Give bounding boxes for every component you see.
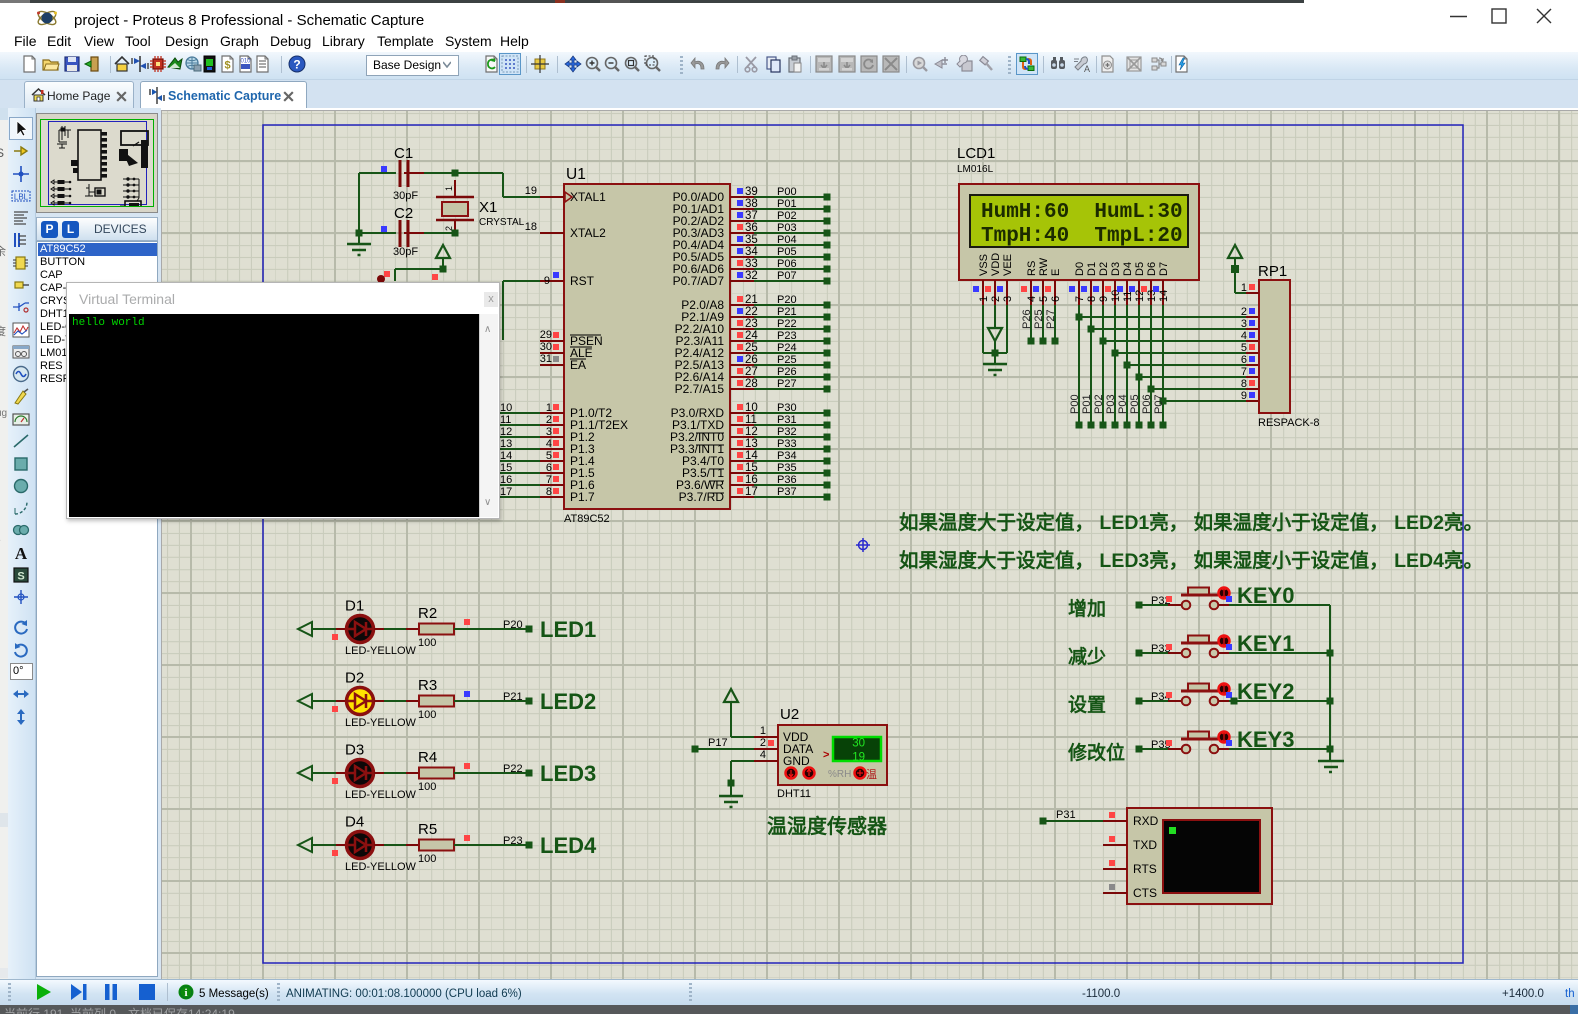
resistor pack RP1 body [1259,280,1290,413]
LCD LCD1 LM016L body [959,184,1199,280]
svg-text:10: 10 [745,402,758,414]
VT pin RTS [1103,868,1127,870]
power arrow VDD down [994,305,996,328]
wire bus D1 to RP1 [1091,328,1246,330]
svg-text:P02: P02 [777,210,797,222]
svg-text:P27: P27 [777,378,797,390]
wire arrow to D2 [312,700,336,702]
wire lcd P25 [1042,305,1044,341]
DHT display [833,737,881,761]
svg-text:P04: P04 [777,234,797,246]
svg-text:1: 1 [1241,282,1247,294]
wire lcd P26 [1030,305,1032,341]
U1 pin P1.0/T2 [499,412,540,414]
svg-text:5: 5 [1241,342,1247,354]
toolbar [0,52,1578,80]
svg-text:P01: P01 [1081,394,1093,414]
U2 pin 4 GND [754,760,778,762]
U1 pin P1.4 [499,460,540,462]
LCD screen [970,195,1188,247]
wire KEY1 right [1229,652,1330,654]
svg-text:P21: P21 [777,306,797,318]
U1 pin EA [540,364,564,366]
svg-text:RTS: RTS [1133,862,1157,876]
svg-text:4: 4 [760,749,766,761]
svg-text:EA: EA [570,358,586,372]
svg-text:16: 16 [500,474,512,486]
svg-text:P22: P22 [777,318,797,330]
LED D4 [347,832,374,859]
svg-text:P20: P20 [777,294,797,306]
svg-text:RW: RW [1038,257,1050,276]
svg-text:设置: 设置 [1068,694,1106,716]
svg-text:7: 7 [546,474,552,486]
DHT buttons [786,768,797,779]
svg-text:P20: P20 [503,619,523,631]
crystal X1 [454,180,456,197]
wire bus D6 to RP1 [1151,388,1246,390]
svg-text:P26: P26 [1021,309,1033,329]
svg-text:27: 27 [745,366,758,378]
svg-text:1: 1 [546,402,552,414]
wire KEY2 right [1229,700,1330,702]
tab bar [0,80,1578,108]
wire lcd D7 column [1162,305,1164,425]
wire VSS down [982,305,984,353]
svg-text:P0.7/AD7: P0.7/AD7 [673,274,725,288]
svg-text:8: 8 [546,486,552,498]
svg-text:2: 2 [760,737,766,749]
U2 pin 2 DATA [754,748,778,750]
svg-text:P07: P07 [1153,394,1165,414]
svg-text:R3: R3 [418,677,437,694]
chip U1 AT89C52 body [564,184,730,509]
wire R4 to terminal [454,772,526,774]
svg-text:P27: P27 [1045,309,1057,329]
svg-text:P37: P37 [777,486,797,498]
svg-text:32: 32 [745,270,758,282]
svg-text:D1: D1 [345,598,364,615]
svg-text:25: 25 [745,342,758,354]
svg-text:P25: P25 [1033,309,1045,329]
ground LCD [994,353,996,364]
wire gnd DHT [731,760,754,762]
svg-text:39: 39 [745,186,758,198]
virtual terminal instrument body [1127,808,1272,904]
svg-text:P05: P05 [1129,394,1141,414]
svg-text:19: 19 [525,185,537,197]
svg-text:RESPACK-8: RESPACK-8 [1258,417,1320,429]
svg-text:LED-YELLOW: LED-YELLOW [345,789,417,801]
svg-text:LED-YELLOW: LED-YELLOW [345,861,417,873]
virtual terminal popup window [66,282,500,519]
svg-text:RS: RS [1026,261,1038,276]
svg-text:P30: P30 [777,402,797,414]
wire R3 to terminal [454,700,526,702]
svg-text:P21: P21 [503,691,523,703]
button KEY2 [1168,700,1181,702]
wire KEY0 right [1229,604,1330,606]
svg-text:P33: P33 [777,438,797,450]
U1 pin ALE [540,352,564,354]
svg-text:温: 温 [866,768,877,781]
svg-text:13: 13 [500,438,512,450]
svg-text:P2.7/A15: P2.7/A15 [675,382,725,396]
svg-text:D6: D6 [1146,262,1158,276]
button KEY1 [1168,652,1181,654]
U2 pin 1 VDD [754,736,778,738]
wire lcd gnd rail [983,352,1007,354]
svg-text:TXD: TXD [1133,838,1157,852]
svg-text:LED3: LED3 [540,761,596,786]
capacitor C2 [359,232,396,234]
svg-text:33: 33 [745,258,758,270]
svg-text:9: 9 [544,275,550,287]
svg-text:AT89C52: AT89C52 [564,513,610,525]
svg-text:31: 31 [540,353,552,365]
svg-text:S: S [17,571,24,583]
svg-text:12: 12 [745,426,758,438]
svg-text:VSS: VSS [978,254,990,276]
svg-text:2: 2 [1241,306,1247,318]
svg-text:4: 4 [546,438,552,450]
svg-text:U2: U2 [780,706,799,723]
svg-text:减少: 减少 [1068,645,1106,668]
wire R5 to terminal [454,844,526,846]
U1 pin XTAL2 [540,232,564,234]
svg-text:D2: D2 [1098,262,1110,276]
svg-text:E: E [1050,269,1062,276]
svg-text:LBL: LBL [14,193,29,202]
U1 pin RST [540,280,564,282]
sensor U2 DHT11 body [778,725,887,785]
svg-text:9: 9 [1241,390,1247,402]
svg-text:XTAL2: XTAL2 [570,226,606,240]
title bar [0,3,1578,30]
svg-text:如果温度大于设定值， LED1亮， 如果温度小于设定值， L: 如果温度大于设定值， LED1亮， 如果温度小于设定值， LED2亮。 [899,511,1483,534]
power arrow DHT [724,689,738,702]
status bar [0,979,1578,1005]
svg-text:14: 14 [1158,290,1170,302]
svg-text:14: 14 [745,450,758,462]
wire KEY1 left [1136,650,1143,657]
svg-text:13: 13 [745,438,758,450]
svg-text:P03: P03 [777,222,797,234]
wire arrow to D4 [312,844,336,846]
svg-text:12: 12 [500,426,512,438]
svg-text:HumH:60 HumL:30: HumH:60 HumL:30 [981,201,1183,224]
resistor R3 100 [419,696,454,707]
svg-text:P05: P05 [777,246,797,258]
svg-text:4: 4 [1241,330,1247,342]
wire lcd D3 column [1114,305,1116,425]
wire bus D2 to RP1 [1103,340,1246,342]
ground keys [1318,760,1344,763]
wire KEY3 left [1136,746,1143,753]
svg-text:34: 34 [745,246,758,258]
svg-text:RP1: RP1 [1258,263,1287,280]
svg-text:100: 100 [418,637,436,649]
svg-text:P1.7: P1.7 [570,490,595,504]
wire arrow to D1 [312,628,336,630]
svg-text:11: 11 [745,414,757,426]
svg-text:P06: P06 [777,258,797,270]
origin marker [859,541,868,550]
U1 pin XTAL1 [540,196,564,198]
svg-text:XTAL1: XTAL1 [570,190,606,204]
svg-text:30pF: 30pF [393,246,418,258]
svg-text:LED-YELLOW: LED-YELLOW [345,717,417,729]
LED D1 [347,616,374,643]
VT pin CTS [1103,892,1127,894]
wire KEY2 left [1136,698,1143,705]
U1 pin PSEN [540,340,564,342]
menu bar [0,30,1578,52]
svg-text:22: 22 [745,306,758,318]
svg-text:35: 35 [745,234,758,246]
input terminal LED2 [298,694,312,708]
wire D1 to R2 [374,628,384,630]
wire lcd D2 column [1102,305,1104,425]
wire lcd P27 [1054,305,1056,341]
top dark sliver [0,0,1304,3]
svg-text:15: 15 [745,462,758,474]
power arrow reset [436,245,450,258]
wire bus D5 to RP1 [1139,376,1246,378]
svg-text:17: 17 [500,486,512,498]
svg-text:TmpH:40 TmpL:20: TmpH:40 TmpL:20 [981,225,1183,248]
VT pin RXD [1103,820,1127,822]
ground crystal rail [356,230,363,237]
svg-text:21: 21 [745,294,758,306]
svg-text:P23: P23 [503,835,523,847]
svg-text:>: > [823,749,829,761]
svg-text:D4: D4 [1122,262,1134,276]
wire R2 to terminal [454,628,526,630]
svg-text:R4: R4 [418,749,437,766]
svg-text:P32: P32 [777,426,797,438]
resistor R2 100 [419,624,454,635]
VT pin TXD [1103,844,1127,846]
svg-text:30pF: 30pF [393,190,418,202]
wire RST feed [503,280,540,282]
svg-text:P02: P02 [1093,394,1105,414]
wire bus D3 to RP1 [1115,352,1246,354]
svg-text:i: i [184,987,187,999]
svg-text:P3.7/RD: P3.7/RD [679,490,725,504]
svg-text:14: 14 [500,450,512,462]
svg-text:LM016L: LM016L [957,164,994,175]
svg-text:修改位: 修改位 [1067,741,1125,764]
wire D2 to R3 [374,700,384,702]
svg-text:8: 8 [1241,378,1247,390]
svg-text:CTS: CTS [1133,886,1157,900]
svg-text:LED-YELLOW: LED-YELLOW [345,645,417,657]
svg-text:R2: R2 [418,605,437,622]
svg-text:P17: P17 [708,737,728,749]
input terminal LED1 [298,622,312,636]
wire lcd D6 column [1150,305,1152,425]
svg-text:U1: U1 [566,166,586,183]
main area [161,110,1578,979]
svg-text:P34: P34 [777,450,797,462]
svg-text:DHT11: DHT11 [777,788,811,800]
input terminal LED3 [298,766,312,780]
U1 pin P1.5 [499,472,540,474]
wire D3 to R4 [374,772,384,774]
svg-text:VEE: VEE [1002,254,1014,276]
svg-text:6: 6 [546,462,552,474]
svg-text:D0: D0 [1074,262,1086,276]
wire lcd D5 column [1138,305,1140,425]
svg-text:5: 5 [546,450,552,462]
svg-text:2: 2 [990,296,1002,302]
svg-text:17: 17 [745,486,758,498]
svg-text:6: 6 [1241,354,1247,366]
svg-text:LED4: LED4 [540,833,597,858]
svg-text:P24: P24 [777,342,797,354]
svg-text:P04: P04 [1117,394,1129,414]
svg-text:%RH: %RH [828,769,851,780]
svg-text:P01: P01 [777,198,797,210]
U1 pin P1.2 [499,436,540,438]
svg-text:D4: D4 [345,814,364,831]
svg-text:A: A [15,544,28,563]
svg-text:P00: P00 [1069,394,1081,414]
grid major lines [162,111,1578,979]
svg-text:30: 30 [852,738,865,750]
svg-text:LCD1: LCD1 [957,145,995,162]
wire RP1 pin1 [1234,269,1236,293]
svg-text:CRYSTAL: CRYSTAL [479,217,525,228]
svg-text:11: 11 [1122,291,1134,302]
svg-text:38: 38 [745,198,758,210]
svg-text:19: 19 [852,752,865,764]
wire bus D7 to RP1 [1163,400,1246,402]
LED D3 [347,760,374,787]
wire lcd D0 column [1078,305,1080,425]
wire XTAL1 feed [455,172,503,174]
svg-text:28: 28 [745,378,758,390]
svg-text:15: 15 [500,462,512,474]
svg-text:P23: P23 [777,330,797,342]
svg-text:D5: D5 [1134,262,1146,276]
wire data DHT [692,746,699,753]
button KEY3 [1168,748,1181,750]
U1 pin P1.7 [499,496,540,498]
svg-text:R5: R5 [418,821,437,838]
bottom background-app bar [0,1005,1578,1014]
svg-text:增加: 增加 [1068,597,1106,620]
capacitor C1 [359,172,396,174]
ground DHT [730,785,732,796]
key bus right [1329,605,1331,760]
svg-text:7: 7 [1074,296,1086,302]
svg-text:100: 100 [418,781,436,793]
svg-text:C2: C2 [394,205,413,222]
svg-text:P36: P36 [777,474,797,486]
wire bus D0 to RP1 [1079,316,1246,318]
LED D2 [347,688,374,715]
svg-text:P00: P00 [777,186,797,198]
svg-text:1: 1 [760,725,766,737]
VT screen [1163,820,1260,893]
svg-text:5: 5 [1038,296,1050,302]
svg-text:100: 100 [418,853,436,865]
svg-text:6: 6 [1050,296,1062,302]
wire P31 [1040,818,1047,825]
svg-text:C1: C1 [394,145,413,162]
svg-text:RXD: RXD [1133,814,1159,828]
U1 pin P1.1/T2EX [499,424,540,426]
input terminal LED4 [298,838,312,852]
svg-text:26: 26 [745,354,758,366]
wire KEY0 left [1136,602,1143,609]
wire D4 to R5 [374,844,384,846]
wire arrow to D3 [312,772,336,774]
junction crystal bottom [452,230,459,237]
svg-text:29: 29 [540,329,552,341]
svg-text:VDD: VDD [990,253,1002,276]
svg-text:P31: P31 [777,414,797,426]
svg-text:9: 9 [1098,296,1110,302]
svg-text:24: 24 [745,330,758,342]
wire KEY3 right [1229,748,1330,750]
svg-text:P26: P26 [777,366,797,378]
wire reset top [440,266,447,273]
svg-text:温湿度传感器: 温湿度传感器 [767,814,888,838]
wire C1-C2 left rail [358,173,360,233]
wire lcd D4 column [1126,305,1128,425]
svg-text:D7: D7 [1158,262,1170,276]
junction crystal top [452,170,459,177]
svg-text:D2: D2 [345,670,364,687]
svg-text:3: 3 [546,426,552,438]
svg-text:RST: RST [570,274,595,288]
power arrow RP1 [1228,245,1242,258]
U1 pin P1.3 [499,448,540,450]
svg-text:P03: P03 [1105,394,1117,414]
wire lcd D1 column [1090,305,1092,425]
svg-text:23: 23 [745,318,758,330]
svg-text:3: 3 [1002,296,1014,302]
svg-text:D3: D3 [1110,262,1122,276]
svg-text:7: 7 [1241,366,1247,378]
svg-text:LED2: LED2 [540,689,596,714]
svg-text:P25: P25 [777,354,797,366]
svg-text:D3: D3 [345,742,364,759]
sheet border [263,125,1463,963]
svg-text:2: 2 [546,414,552,426]
svg-text:如果湿度大于设定值， LED3亮， 如果湿度小于设定值， L: 如果湿度大于设定值， LED3亮， 如果湿度小于设定值， LED4亮。 [899,549,1483,572]
svg-text:37: 37 [745,210,758,222]
wire VEE down [1006,305,1008,353]
wire bus D4 to RP1 [1127,364,1246,366]
U1 pin P1.6 [499,484,540,486]
svg-text:P07: P07 [777,270,797,282]
svg-text:X1: X1 [479,199,497,216]
svg-text:1: 1 [444,186,454,191]
wire vdd DHT [730,701,732,737]
svg-text:P31: P31 [1056,809,1076,821]
svg-text:11: 11 [500,414,511,426]
svg-text:3: 3 [1241,318,1247,330]
svg-text:P22: P22 [503,763,523,775]
svg-text:100: 100 [418,709,436,721]
svg-text:P35: P35 [777,462,797,474]
svg-text:30: 30 [540,341,552,353]
svg-text:4: 4 [1026,296,1038,302]
